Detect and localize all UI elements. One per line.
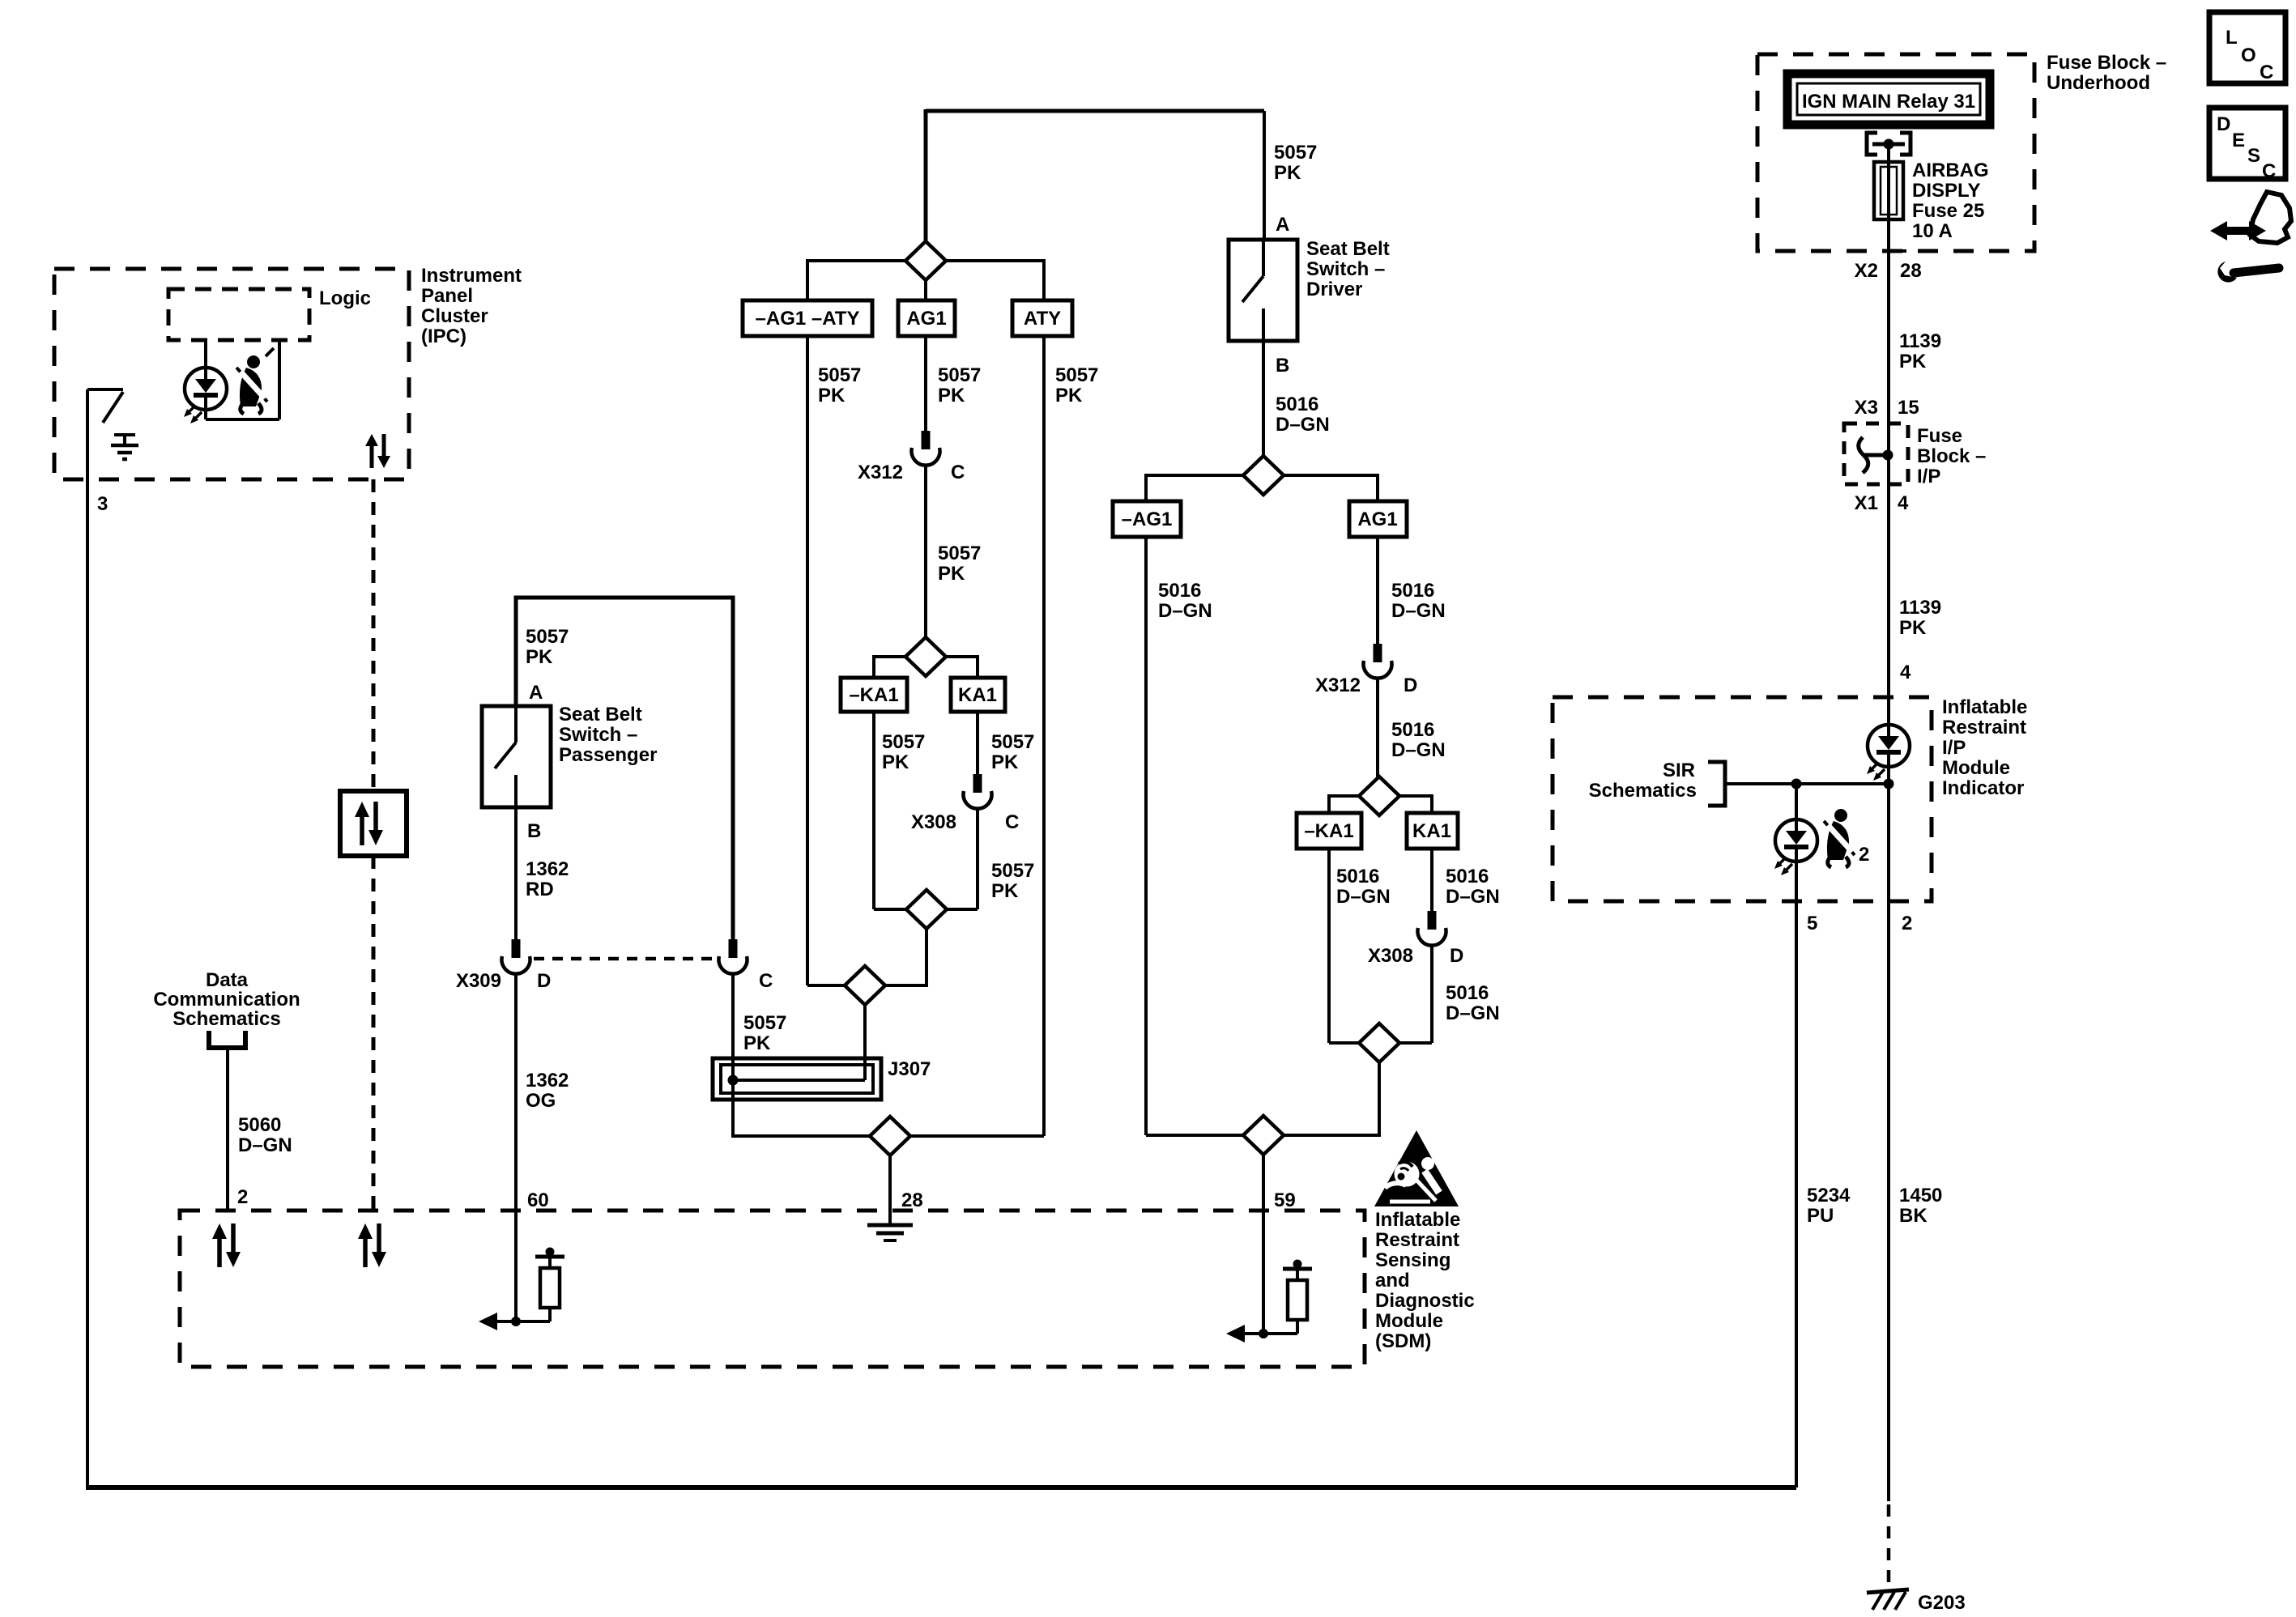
Fuse Block - I/P dashed box [1844, 423, 1986, 487]
svg-text:AG1: AG1 [906, 308, 946, 330]
svg-text:PK: PK [1899, 351, 1927, 372]
svg-text:D–GN: D–GN [238, 1134, 292, 1156]
wire S5 to SDM pin 28 [888, 1155, 892, 1211]
junction in J307 [728, 1075, 739, 1086]
svg-text:Indicator: Indicator [1942, 777, 2024, 799]
wire -AG1 -ATY leg into S4 [807, 984, 845, 987]
svg-text:PK: PK [526, 646, 553, 668]
svg-text:5016: 5016 [1336, 866, 1379, 887]
svg-text:Restraint: Restraint [1942, 717, 2026, 738]
svg-text:1362: 1362 [526, 858, 569, 880]
airbag warning triangle [1374, 1130, 1459, 1206]
svg-text:Panel: Panel [421, 285, 473, 307]
svg-text:5057: 5057 [882, 731, 925, 753]
wire to -AG1 (driver) [1146, 475, 1243, 501]
svg-text:Fuse Block –: Fuse Block – [2047, 52, 2166, 74]
svg-text:C: C [759, 970, 773, 992]
svg-text:5016: 5016 [1391, 719, 1434, 741]
svg-text:Block –: Block – [1917, 445, 1986, 467]
svg-text:S: S [2247, 145, 2260, 167]
switch to ground inside IPC [87, 389, 123, 423]
svg-text:Sensing: Sensing [1375, 1249, 1450, 1271]
wire 5057 PK below X312 C [926, 466, 981, 637]
wire to -KA1 (driver) [1329, 796, 1359, 813]
svg-text:Schematics: Schematics [173, 1008, 280, 1030]
svg-text:B: B [527, 820, 541, 842]
wire 5057 PK below -KA1 [874, 712, 925, 909]
wire from pin 2 down [1887, 784, 1890, 901]
svg-text:5234: 5234 [1807, 1185, 1851, 1206]
svg-text:C: C [2260, 62, 2273, 83]
svg-text:Switch –: Switch – [559, 724, 637, 746]
connector X309 pin D [456, 939, 551, 992]
svg-text:Fuse 25: Fuse 25 [1912, 200, 1984, 222]
Inflatable Restraint I/P Module Indicator dashed box [1553, 696, 2027, 901]
airbag indicator LED [1867, 697, 1910, 784]
svg-text:D–GN: D–GN [1446, 1002, 1500, 1024]
ground G203 [1867, 1589, 1966, 1614]
svg-text:PK: PK [991, 880, 1019, 902]
wire 5060 D-GN [228, 1050, 292, 1211]
wire S8 to SDM pin 59 [1262, 1155, 1265, 1334]
connector box -AG1 -ATY [743, 300, 872, 336]
svg-text:D–GN: D–GN [1391, 739, 1446, 761]
wire to ATY [946, 261, 1044, 300]
svg-text:Cluster: Cluster [421, 305, 488, 327]
wire to -AG1 -ATY [807, 261, 905, 300]
svg-text:E: E [2232, 130, 2245, 151]
svg-text:D: D [2217, 113, 2230, 135]
svg-text:AG1: AG1 [1357, 509, 1397, 530]
splice S5 [870, 1117, 910, 1155]
wire C leg through J307 [731, 974, 735, 1136]
svg-text:–KA1: –KA1 [849, 684, 898, 706]
splice S4 [845, 966, 885, 1005]
svg-text:and: and [1375, 1270, 1410, 1291]
svg-text:PK: PK [1274, 162, 1301, 184]
fuse AIRBAG DISPLY Fuse 25 10 A [1874, 144, 1989, 242]
wire ATY leg into S5 [910, 1134, 1044, 1138]
SDM dashed box [180, 1211, 1365, 1367]
svg-text:C: C [951, 462, 965, 483]
svg-text:5057: 5057 [743, 1012, 786, 1034]
svg-text:5016: 5016 [1446, 866, 1489, 887]
connector box KA1 (passenger) [951, 678, 1005, 712]
svg-text:SIR: SIR [1663, 760, 1695, 781]
svg-text:5057: 5057 [526, 626, 569, 648]
wire 5016 D-GN below X312 D [1378, 679, 1446, 777]
wire 5057 PK below -AG1 -ATY [807, 336, 861, 985]
svg-text:PK: PK [1055, 385, 1083, 406]
svg-text:5: 5 [1807, 913, 1817, 934]
wire from pin 5 down [1795, 901, 1798, 1487]
svg-text:60: 60 [527, 1189, 549, 1211]
svg-text:Restraint: Restraint [1375, 1229, 1459, 1251]
connector box -KA1 (driver) [1297, 813, 1361, 849]
svg-text:PK: PK [938, 563, 965, 585]
svg-text:Logic: Logic [319, 287, 371, 309]
splice S7 [1359, 777, 1399, 815]
wire 5016 D-GN below KA1 [1432, 849, 1500, 912]
SIR Schematics label [1589, 760, 1697, 802]
connector X309 pin C [719, 939, 773, 992]
svg-text:X3: X3 [1855, 397, 1878, 419]
svg-text:15: 15 [1898, 397, 1919, 419]
wire 5016 D-GN below -AG1 [1146, 537, 1212, 1135]
connector X312 pin C [858, 431, 965, 483]
SDM sense resistor and arrow at pin 60 [479, 1248, 564, 1331]
wires into splice S9 [1329, 1041, 1360, 1045]
svg-text:5057: 5057 [1055, 364, 1098, 386]
svg-text:5057: 5057 [938, 364, 981, 386]
connector box -KA1 (passenger) [841, 678, 907, 712]
svg-text:Driver: Driver [1306, 279, 1362, 300]
svg-text:IGN MAIN Relay 31: IGN MAIN Relay 31 [1802, 91, 1975, 113]
svg-text:A: A [529, 682, 543, 704]
svg-text:5057: 5057 [991, 860, 1034, 882]
svg-text:L: L [2226, 27, 2238, 49]
Data Communication Schematics label [153, 969, 300, 1030]
svg-text:5057: 5057 [1274, 142, 1317, 164]
relay output terminal [1867, 133, 1910, 155]
dashed serial data line from IPC [372, 479, 376, 791]
wire 5016 D-GN below X308 D [1432, 946, 1500, 1043]
svg-text:5057: 5057 [991, 731, 1034, 753]
svg-text:X308: X308 [911, 811, 956, 833]
wire to KA1 (driver) [1399, 796, 1432, 813]
svg-text:5057: 5057 [938, 543, 981, 564]
dashed serial data line to SDM [372, 856, 376, 1211]
wire 5016 D-GN below AG1 [1378, 537, 1446, 645]
svg-text:Inflatable: Inflatable [1942, 696, 2027, 718]
svg-text:(IPC): (IPC) [421, 326, 466, 347]
svg-text:I/P: I/P [1942, 737, 1966, 759]
svg-text:(SDM): (SDM) [1375, 1330, 1431, 1352]
splice S2 [905, 637, 946, 676]
svg-text:D–GN: D–GN [1158, 600, 1212, 622]
wires into splice S3 [874, 908, 906, 911]
wire from IPC pin 3 (long left leg) [86, 389, 89, 1487]
dashed wire to ground G203 [1887, 1504, 1891, 1590]
svg-text:–KA1: –KA1 [1304, 820, 1353, 842]
svg-text:X1: X1 [1855, 492, 1878, 514]
serial data arrows in SDM (left) [212, 1223, 241, 1267]
LOC legend box [2209, 12, 2285, 83]
svg-text:PK: PK [1899, 617, 1927, 639]
Logic dashed box [168, 287, 371, 340]
svg-text:Schematics: Schematics [1589, 780, 1697, 802]
svg-text:PK: PK [938, 385, 965, 406]
diagnostic arrow and wrench icon [2210, 192, 2291, 283]
svg-text:D–GN: D–GN [1336, 886, 1391, 908]
wire from J307 to splice S5 [733, 1100, 870, 1136]
svg-text:Passenger: Passenger [559, 744, 657, 766]
wire 5016 D-GN below -KA1 [1329, 849, 1391, 1043]
svg-text:PK: PK [882, 751, 909, 773]
svg-text:D: D [1404, 674, 1417, 696]
off-page bracket for data communication [209, 1031, 245, 1048]
svg-text:1362: 1362 [526, 1070, 569, 1091]
svg-text:X309: X309 [456, 970, 501, 992]
svg-text:1450: 1450 [1899, 1185, 1942, 1206]
wire to -KA1 (passenger) [874, 657, 905, 678]
svg-text:X312: X312 [1315, 674, 1361, 696]
seat belt icon in IPC [236, 348, 274, 414]
wire to splice [924, 109, 928, 243]
wire from SIR bracket [1725, 782, 1889, 785]
junction node at LED branch [1791, 779, 1802, 789]
SDM label [1375, 1209, 1475, 1352]
wire 5057 PK below X308 C [978, 809, 1034, 909]
svg-text:5016: 5016 [1391, 580, 1434, 602]
wire to KA1 (passenger) [946, 657, 978, 678]
connector box AG1 [898, 300, 955, 336]
wire label 5057 PK at passenger A [526, 626, 569, 668]
wire 5057 PK below AG1 [926, 336, 981, 432]
svg-text:AIRBAG: AIRBAG [1912, 160, 1989, 181]
splice S9 [1359, 1023, 1399, 1062]
svg-text:2: 2 [237, 1186, 248, 1208]
svg-text:28: 28 [901, 1189, 923, 1211]
wire S3 to S4 [885, 929, 926, 985]
connector X308 pin D [1368, 911, 1463, 967]
wire label 5234 PU [1807, 1185, 1851, 1227]
wire to AG1 (driver) [1284, 475, 1378, 501]
splice S8 [1243, 1116, 1284, 1155]
svg-text:BK: BK [1899, 1205, 1928, 1227]
svg-text:D: D [1450, 945, 1463, 967]
svg-text:1139: 1139 [1899, 597, 1941, 619]
ground symbol inside IPC [111, 435, 138, 459]
svg-text:Seat Belt: Seat Belt [1306, 238, 1390, 260]
svg-text:PK: PK [991, 751, 1019, 773]
svg-text:O: O [2241, 45, 2256, 66]
top feed wire 5057 PK [926, 109, 1264, 113]
seat belt indicator LED [1774, 784, 1817, 901]
svg-text:4: 4 [1898, 492, 1909, 514]
svg-text:C: C [2262, 160, 2276, 182]
svg-text:2: 2 [1902, 913, 1912, 934]
svg-text:5016: 5016 [1446, 982, 1489, 1004]
svg-text:5016: 5016 [1158, 580, 1201, 602]
svg-text:5016: 5016 [1276, 394, 1318, 415]
wire 1139 PK to indicator [1855, 492, 1941, 639]
svg-text:D–GN: D–GN [1446, 886, 1500, 908]
seat belt telltale LED inside IPC [184, 340, 227, 423]
svg-text:Switch –: Switch – [1306, 258, 1385, 280]
svg-text:5060: 5060 [238, 1114, 281, 1136]
svg-text:PU: PU [1807, 1205, 1834, 1227]
svg-text:C: C [1005, 811, 1019, 833]
svg-text:Diagnostic: Diagnostic [1375, 1290, 1475, 1312]
svg-text:PK: PK [818, 385, 846, 406]
splice S6 [1243, 456, 1284, 495]
svg-text:2: 2 [1859, 844, 1869, 866]
wire S9 to S8 [1284, 1062, 1379, 1135]
svg-text:Module: Module [1375, 1310, 1443, 1332]
wire 5057 PK driver feed [1264, 111, 1317, 240]
seat belt switch - driver [1229, 238, 1390, 341]
seat belt switch - passenger [482, 704, 657, 807]
wire 1139 PK from fuse [1855, 219, 1941, 698]
svg-text:PK: PK [743, 1032, 771, 1054]
Fuse Block - Underhood dashed box [1757, 52, 2166, 251]
junction node at indicator wire [1884, 779, 1894, 789]
wire label 5057 PK above J307 [743, 1012, 786, 1054]
svg-text:Seat Belt: Seat Belt [559, 704, 642, 726]
connector box KA1 (driver) [1407, 813, 1458, 849]
wire 5016 D-GN from B [1263, 341, 1330, 456]
ground symbol inside SDM [867, 1211, 913, 1240]
svg-text:I/P: I/P [1917, 466, 1940, 487]
svg-text:OG: OG [526, 1090, 556, 1112]
svg-text:4: 4 [1900, 662, 1911, 683]
svg-text:KA1: KA1 [958, 684, 997, 706]
boxed serial data arrows symbol [340, 791, 407, 856]
svg-text:Inflatable: Inflatable [1375, 1209, 1460, 1231]
splice S3 [906, 890, 947, 929]
wire S4 down into J307 [863, 1005, 867, 1080]
svg-text:D–GN: D–GN [1391, 600, 1446, 622]
wire -AG1 leg into S8 [1146, 1134, 1244, 1137]
svg-text:D: D [537, 970, 551, 992]
svg-text:3: 3 [97, 493, 108, 515]
splice S1 [905, 241, 946, 280]
wire to AG1 [924, 280, 927, 300]
connector box -AG1 (driver) [1113, 501, 1181, 537]
svg-text:Underhood: Underhood [2047, 72, 2150, 94]
wire loop under telltale [206, 340, 279, 419]
connector X312 pin D [1315, 644, 1417, 696]
svg-text:B: B [1276, 355, 1289, 377]
svg-text:59: 59 [1274, 1189, 1296, 1211]
svg-text:DISPLY: DISPLY [1912, 180, 1980, 202]
wire 5057 PK below ATY [1044, 336, 1098, 1136]
svg-text:RD: RD [526, 879, 554, 900]
svg-text:28: 28 [1900, 260, 1922, 282]
bottom interconnect wire [86, 1485, 1796, 1490]
Instrument Panel Cluster (IPC) dashed box [54, 265, 522, 479]
svg-text:KA1: KA1 [1412, 820, 1451, 842]
svg-text:X312: X312 [858, 462, 903, 483]
wire label 1450 BK [1899, 1185, 1942, 1227]
serial data arrows in IPC [365, 434, 390, 468]
svg-text:X308: X308 [1368, 945, 1413, 967]
wire 1362 RD [516, 807, 569, 939]
svg-text:Fuse: Fuse [1917, 425, 1962, 447]
svg-text:Data: Data [206, 969, 249, 991]
svg-text:10 A: 10 A [1912, 220, 1953, 242]
svg-text:Communication: Communication [153, 989, 300, 1011]
dashed connector link X309 [534, 957, 716, 961]
svg-text:X2: X2 [1855, 260, 1878, 282]
svg-text:1139: 1139 [1899, 330, 1941, 352]
svg-text:G203: G203 [1918, 1592, 1966, 1614]
fusible element inside fuse block I/P [1859, 437, 1893, 473]
svg-text:–AG1: –AG1 [1122, 509, 1173, 530]
seat belt icon in indicator module [1824, 809, 1869, 867]
svg-text:Module: Module [1942, 757, 2010, 779]
wire 1362 OG to SDM pin 60 [516, 974, 569, 1321]
passenger feed wire top [516, 598, 733, 939]
svg-text:D–GN: D–GN [1276, 414, 1330, 436]
connector X308 pin C [911, 774, 1019, 833]
connector box ATY [1012, 300, 1072, 336]
IGN MAIN Relay 31 [1787, 74, 1990, 125]
DESC legend box [2209, 108, 2285, 182]
svg-text:A: A [1276, 214, 1289, 236]
connector box AG1 (driver) [1349, 501, 1407, 537]
splice pack J307 [713, 1058, 931, 1100]
svg-text:Instrument: Instrument [421, 265, 522, 287]
svg-text:5057: 5057 [818, 364, 861, 386]
svg-text:J307: J307 [888, 1058, 931, 1080]
svg-text:ATY: ATY [1024, 308, 1061, 330]
svg-text:–AG1 –ATY: –AG1 –ATY [756, 308, 860, 330]
serial data arrows in SDM (right) [358, 1223, 386, 1267]
off-page bracket to SIR schematics [1708, 762, 1725, 806]
wire 5057 PK below KA1 [978, 712, 1034, 775]
SDM sense resistor and arrow at pin 59 [1226, 1260, 1312, 1343]
